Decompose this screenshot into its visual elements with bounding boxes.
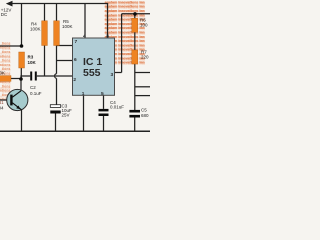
wire output top to right edge <box>122 13 150 15</box>
wire R6 top lead <box>134 14 136 18</box>
wire pin 3 output stub <box>115 72 122 74</box>
svg-text:5: 5 <box>101 91 104 97</box>
transistor Q1 <box>7 89 28 110</box>
svg-text:0.1uF: 0.1uF <box>30 91 42 96</box>
resistor R5 <box>54 21 60 46</box>
svg-text:100K: 100K <box>30 27 41 32</box>
arrow +12V supply <box>6 1 13 7</box>
svg-text:7: 7 <box>75 39 78 45</box>
IC U1 555 timer (IC 1) <box>73 38 115 95</box>
wire C2 to pin 2 with hop <box>37 75 73 77</box>
wire pins 7-6 vertical (R5 bottom down), hop over pin2 wire <box>56 46 58 106</box>
wire R7 bottom lead down <box>134 64 136 110</box>
wire transistor collector up <box>20 79 22 91</box>
svg-text:3: 3 <box>111 72 114 78</box>
wire pin 3 riser <box>121 14 123 73</box>
wire collector node to C2 <box>21 76 30 79</box>
wire R6-R7 link <box>134 32 136 50</box>
svg-text:10K: 10K <box>28 60 37 65</box>
wire transistor emitter down <box>21 110 23 131</box>
wire pin 6 stub <box>57 60 73 62</box>
resistor R3 <box>19 52 25 68</box>
wire pin 5 lead to C4 <box>103 95 105 109</box>
capacitor C5 <box>129 110 140 118</box>
svg-text:100K: 100K <box>62 24 73 29</box>
resistor R4 <box>42 21 48 46</box>
svg-text:04: 04 <box>0 105 4 110</box>
wire R5 top lead <box>56 4 58 22</box>
watermark left block halo <box>0 43 11 99</box>
wire right stub 1 <box>135 72 150 74</box>
node B junction dot (collector / R2 / R3 / C2) <box>19 77 23 81</box>
capacitor C4 <box>99 109 109 116</box>
watermark left block <box>0 41 11 101</box>
wire pin 7 stub <box>57 45 73 47</box>
wire left column top (rail to node A) <box>21 4 23 47</box>
svg-text:C5: C5 <box>141 108 147 113</box>
svg-text:8: 8 <box>106 34 109 40</box>
svg-text:2: 2 <box>73 77 76 83</box>
wire hop bump <box>55 74 57 79</box>
wire pin 8 drop (rail corner) <box>107 3 109 38</box>
wire C3 bottom lead <box>55 114 57 132</box>
wire pin 1 ground lead <box>83 95 85 131</box>
wire R4 top lead <box>44 4 46 22</box>
wire transistor base lead <box>0 99 11 101</box>
svg-text:680: 680 <box>141 113 149 118</box>
watermark right block <box>105 0 145 64</box>
node A junction dot (R3 top / left feed) <box>20 44 24 48</box>
watermark right block fatten <box>105 0 145 64</box>
wire R4 bottom lead down to pin-2 net <box>44 46 46 77</box>
svg-text:4: 4 <box>83 34 86 40</box>
resistor R2 (cut off at left edge) <box>0 76 11 82</box>
wire C5 bottom lead <box>134 118 136 132</box>
svg-text:DC: DC <box>1 12 8 17</box>
wire R2 lead to collector node <box>11 78 20 80</box>
svg-text:0.01uF: 0.01uF <box>110 105 124 110</box>
svg-text:220: 220 <box>141 54 149 59</box>
wire top +12V rail <box>10 3 108 5</box>
node C junction dot (output to R6) <box>133 12 137 16</box>
wire C4 bottom lead <box>103 116 105 131</box>
wire right stub 3 <box>135 95 150 97</box>
capacitor C2 <box>30 72 37 81</box>
wire R3 bottom lead to collector node <box>20 68 22 79</box>
watermark right block halo <box>105 2 145 66</box>
svg-text:25V: 25V <box>62 112 70 117</box>
svg-text:1: 1 <box>82 91 85 97</box>
svg-text:R3: R3 <box>28 55 34 60</box>
svg-text:10K: 10K <box>0 70 5 75</box>
resistor R6 <box>132 18 138 32</box>
wire left edge feed at y46 <box>0 45 22 47</box>
capacitor C3 electrolytic <box>50 105 60 108</box>
resistor R7 <box>132 50 138 64</box>
wire pin 4 drop <box>84 4 86 39</box>
svg-text:C2: C2 <box>30 85 36 90</box>
svg-text:100: 100 <box>140 23 148 28</box>
svg-text:555: 555 <box>83 67 101 79</box>
svg-text:6: 6 <box>74 57 77 63</box>
wire right stub 2 <box>135 86 150 88</box>
wire bottom ground rail <box>0 130 150 132</box>
